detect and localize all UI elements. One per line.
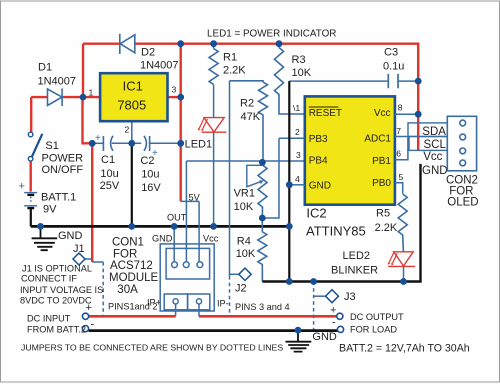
svg-text:IP-: IP- [217,299,229,309]
wire: J2 dashed link to +12V bus [229,276,231,316]
wire: R1 to LED1 to ground [213,85,215,227]
svg-text:SCL: SCL [424,139,447,151]
svg-text:OUT: OUT [167,213,187,223]
wire: IC1 pin3 stub [168,96,181,98]
svg-text:BATT.1: BATT.1 [41,192,76,204]
junction C1C2 ground on bus [128,223,135,230]
svg-text:5V: 5V [189,193,201,203]
wire: J1 dashed link [92,261,103,263]
svg-text:\1: \1 [293,103,300,113]
connector CON2 [447,116,476,171]
wire: C1 to VIN [92,142,103,144]
junction GND drop / lower ground link [286,278,293,285]
svg-text:BATT.2 = 12V,7Ah TO 30Ah: BATT.2 = 12V,7Ah TO 30Ah [339,343,470,355]
wire: 5V vertical rail [179,44,181,202]
wire: PB4 sense line [186,160,304,162]
junction LED2 cathode on lower ground link [400,278,407,285]
wire: red bus from IP- to DC output + [199,315,337,318]
svg-text:FOR LOAD: FOR LOAD [350,325,397,335]
svg-text:R5: R5 [376,208,390,220]
svg-text:-: - [91,319,95,331]
junction battery ground on bus [37,223,44,230]
LED2 blinker [388,252,415,267]
battery BATT.1 [24,193,37,209]
svg-text:VR1: VR1 [234,187,255,199]
terminal DC output + [337,313,343,319]
svg-text:+: + [95,133,101,144]
svg-text:C2: C2 [140,155,154,167]
svg-text:PINS1and 2: PINS1and 2 [108,302,158,312]
svg-text:10K: 10K [236,248,256,260]
junction IC2 pin8 Vcc [415,111,422,118]
svg-text:+: + [86,302,92,314]
capacitor C2 [144,136,150,151]
wire: VIN down to C1 and J1 [83,97,93,262]
svg-text:Vcc: Vcc [423,151,442,163]
svg-text:R4: R4 [237,235,251,247]
wire: J2 riser from R2 top [229,81,231,276]
terminal DC input - [82,326,88,332]
svg-text:ATTINY85: ATTINY85 [306,223,366,238]
junction GND drop on ground bus [286,223,293,230]
resistor R1 2.2K [209,44,218,85]
svg-text:ADC1: ADC1 [364,134,391,145]
jumper J3 [314,295,326,297]
svg-text:J1 IS OPTIONAL: J1 IS OPTIONAL [22,264,92,274]
svg-text:R3: R3 [292,54,306,66]
junction module GND pin on bus [171,223,178,230]
svg-text:IC2: IC2 [306,206,326,221]
junction R1 top on rail [210,40,217,47]
svg-text:2.2K: 2.2K [375,222,398,234]
svg-text:10K: 10K [292,67,312,79]
wire: C2 to 5V rail [150,142,181,144]
SCL label box [409,137,447,151]
wire: rail down to D1 junction [82,44,84,97]
svg-text:1N4007: 1N4007 [140,60,179,72]
svg-text:JUMPERS TO BE CONNECTED ARE SH: JUMPERS TO BE CONNECTED ARE SHOWN BY DOT… [21,343,283,353]
ground symbol left [32,226,58,250]
junction VR1 bottom / R4 top / PB3 line [259,215,266,222]
resistor R2 47K [230,81,268,161]
resistor R3 10K [275,44,305,114]
svg-text:-: - [332,317,336,329]
svg-text:GND: GND [422,165,448,177]
junction D2 cathode on rail [177,40,184,47]
svg-text:J2: J2 [235,283,247,295]
terminal DC input + [82,313,88,319]
svg-text:INPUT VOLTAGE IS: INPUT VOLTAGE IS [20,285,103,295]
wire: C3/GND black drop [288,81,290,281]
junction bottom ground symbol on output bus [295,327,302,334]
svg-text:+: + [19,181,25,193]
wire: lower ground link [262,164,420,282]
junction LED1 cathode on bus [210,223,217,230]
svg-text:GND: GND [309,181,331,192]
svg-text:FROM BATT.2: FROM BATT.2 [27,325,86,335]
svg-text:RESET: RESET [309,108,342,119]
junction R2 bottom / VR1 top / PB4 line [259,159,266,166]
svg-text:D2: D2 [141,47,155,59]
wire: top +12V rail [83,44,418,151]
svg-text:1: 1 [89,88,94,98]
svg-text:GND: GND [58,230,83,242]
wire: IP+ stub [175,304,177,316]
svg-text:DC INPUT: DC INPUT [27,314,71,324]
svg-text:ON/OFF: ON/OFF [42,164,84,176]
connector CON1 ACS712 module [160,244,214,311]
wire: main ground bus [31,225,290,228]
svg-text:R1: R1 [223,51,237,63]
jumper J1 [85,258,92,260]
svg-text:2: 2 [125,125,130,135]
svg-text:2: 2 [295,127,300,137]
svg-text:GND: GND [312,331,337,343]
svg-text:47K: 47K [241,111,261,123]
wire: IP- stub [198,304,200,316]
svg-text:9V: 9V [43,204,57,216]
junction IC1 pin3 output node [177,94,184,101]
svg-text:S1: S1 [45,140,58,152]
svg-text:PB4: PB4 [309,156,328,167]
junction R3 top on rail [276,40,283,47]
svg-text:POWER: POWER [42,153,84,165]
jumper J2 [230,273,239,275]
svg-text:ACS712: ACS712 [110,260,153,272]
svg-text:PINS 3 and 4: PINS 3 and 4 [235,302,290,312]
svg-text:GND: GND [152,234,173,244]
note J1 optional [20,264,103,306]
switch S1 [28,132,42,161]
svg-text:LED1 = POWER INDICATOR: LED1 = POWER INDICATOR [207,29,336,40]
svg-text:16V: 16V [141,182,161,194]
svg-text:LED2: LED2 [343,250,371,262]
junction J3 tap on lower ground link [310,278,317,285]
capacitor C1 [103,136,113,151]
svg-text:6: 6 [396,149,401,159]
wire: pin6 jog to SDA/SCL boxes [395,137,408,160]
svg-text:IC1: IC1 [123,79,143,94]
potentiometer VR1 10K [258,161,267,218]
svg-text:LED1: LED1 [185,139,213,151]
svg-text:10u: 10u [100,168,118,180]
svg-text:C3: C3 [384,47,398,59]
svg-text:OLED: OLED [447,197,478,209]
svg-text:DC OUTPUT: DC OUTPUT [350,312,404,322]
wire: bottom black bus [89,329,338,332]
wire: module Vcc riser [198,201,200,262]
svg-text:1N4007: 1N4007 [38,76,77,88]
svg-text:7: 7 [396,126,401,136]
wire: J3 dashed link [313,282,315,331]
RESET overline [309,106,339,108]
junction C3 right / Vcc rail [415,78,422,85]
VR1 wiper [247,165,262,186]
wire: GND pin4 stub [289,184,305,186]
wire: pin5 to R5 [395,183,403,194]
ground symbol bottom [286,331,312,352]
svg-text:Vcc: Vcc [374,108,391,119]
svg-text:D1: D1 [38,62,52,74]
svg-text:MODULE: MODULE [109,272,159,284]
svg-text:7805: 7805 [117,98,146,113]
svg-text:FOR: FOR [113,248,137,260]
svg-text:BLINKER: BLINKER [331,265,378,277]
svg-text:CON1: CON1 [112,237,144,249]
svg-text:2.2K: 2.2K [223,65,246,77]
diode D2 1N4007 [120,34,135,54]
wire: Vcc pin8 stub [395,113,418,115]
wire: pin7 stub to SDA [395,136,408,138]
IC2 ATTINY85 [305,96,395,204]
capacitor C3 [289,80,418,82]
wire: module OUT riser [185,161,187,262]
wire: S1 to D1 vertical [30,97,32,132]
svg-text:3: 3 [172,85,177,95]
wire: module GND riser [173,226,175,262]
svg-text:8VDC TO 20VDC: 8VDC TO 20VDC [20,296,92,306]
wire: C1 to C2 center [112,142,141,144]
svg-text:10u: 10u [141,169,159,181]
LED1 power indicator [199,118,226,133]
wire: PB3 wire down to VR1 bottom [262,138,279,218]
wire: 5V node to module [181,200,199,202]
terminal DC output - [337,326,343,332]
junction C2 plus / 5V rail [177,140,184,147]
resistor R5 2.2K [398,194,407,252]
svg-text:R2: R2 [240,98,254,110]
wire: battery negative to bus [30,208,32,226]
svg-text:J3: J3 [344,291,356,303]
junction IC2 pin4 GND stub [286,181,293,188]
diode D1 1N4007 [48,89,63,107]
IC1 7805 regulator [100,73,167,121]
junction C1 plus / VIN [89,140,96,147]
svg-text:30A: 30A [117,284,138,296]
svg-text:J1: J1 [73,243,85,255]
svg-text:CONNECT IF: CONNECT IF [21,274,77,284]
wire: C1C2 junction to ground bus [131,143,133,226]
resistor R4 10K [258,218,267,282]
svg-text:5: 5 [399,172,404,182]
wire: LED2 to ground link [403,266,405,281]
wire: red bus from DC input + to IP+ [89,315,176,318]
svg-text:Vcc: Vcc [203,234,219,244]
junction D1 cathode / IC1 pin1 node [80,94,87,101]
wire: input line through D1 to IC1 pin1 [31,96,100,98]
wire: PB3 pin2 stub [279,137,305,139]
wire: S1 to battery [30,161,32,192]
junction C1 C2 ground node [128,140,135,147]
SDA label box [408,123,447,137]
wire: IC1 pin2 stub [131,121,133,143]
svg-text:3: 3 [296,150,301,160]
svg-text:4: 4 [295,174,300,184]
svg-text:10K: 10K [234,201,254,213]
svg-text:8: 8 [398,103,403,113]
svg-text:PB0: PB0 [372,178,391,189]
svg-text:25V: 25V [100,180,120,192]
svg-text:C1: C1 [101,154,115,166]
svg-text:0.1u: 0.1u [383,61,404,73]
svg-text:PB3: PB3 [309,134,328,145]
svg-text:PB1: PB1 [372,156,391,167]
svg-text:+: + [330,305,336,317]
